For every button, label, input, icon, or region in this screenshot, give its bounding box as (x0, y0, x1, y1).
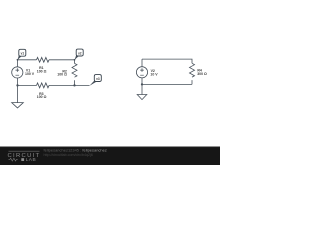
voltage source V2 (136, 67, 147, 78)
svg-text:100 Ω: 100 Ω (57, 73, 67, 77)
resistor R2 (72, 60, 77, 86)
svg-text:100 Ω: 100 Ω (37, 69, 47, 73)
R1 value label (37, 66, 47, 73)
node v3 (90, 75, 102, 86)
R3 value label (37, 92, 47, 99)
CircuitLab logo (8, 151, 41, 163)
junction at node v1 (17, 59, 19, 61)
wire V2 bottom stub (141, 78, 143, 84)
svg-text:v1: v1 (21, 52, 25, 56)
svg-text:http://circuitlab.com/circ/b4q: http://circuitlab.com/circ/b4q2j6 (44, 153, 93, 157)
wire right top rail (142, 59, 192, 63)
wire V2 top stub (141, 59, 143, 67)
svg-text:v2: v2 (78, 51, 82, 55)
voltage source V1 (12, 67, 23, 78)
svg-text:300 Ω: 300 Ω (197, 72, 207, 76)
ground left (12, 85, 24, 108)
node v1 (18, 49, 26, 60)
R2 value label (57, 69, 67, 76)
junction at V1 bottom node (16, 84, 18, 86)
R4 value label (197, 68, 207, 75)
resistor R4 (190, 63, 195, 84)
junction at R2 bottom node (73, 84, 75, 86)
svg-text:felipesanchez12345 : felipesan: felipesanchez12345 : felipesanchez (44, 148, 107, 153)
watermark bar (0, 147, 220, 166)
ground right (137, 84, 147, 99)
wire V1 bottom stub (17, 78, 19, 85)
wire bottom rail right segment (49, 84, 90, 86)
wire V1 top stub (17, 60, 19, 67)
junction at node v2 (74, 59, 76, 61)
svg-text:v3: v3 (96, 77, 100, 81)
wire top rail right segment (49, 59, 75, 61)
junction at V2 bottom node (141, 83, 143, 85)
svg-text:LAB: LAB (26, 157, 37, 163)
wire right bottom rail (142, 83, 192, 85)
V1 value label (25, 69, 35, 77)
wire top rail left segment (18, 59, 37, 61)
resistor R3 (37, 83, 50, 88)
svg-text:100 V: 100 V (25, 72, 35, 76)
svg-text:100 Ω: 100 Ω (37, 95, 47, 99)
node v2 (75, 49, 84, 60)
V2 value label (150, 69, 158, 76)
resistor R1 (37, 57, 50, 62)
wire bottom rail left segment (18, 84, 37, 86)
svg-text:10 V: 10 V (150, 72, 158, 76)
